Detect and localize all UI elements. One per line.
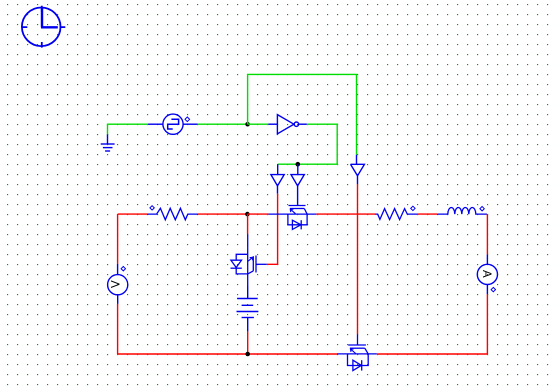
MOSFET Q2: [231, 234, 267, 286]
V1 polarity marker: [121, 267, 125, 271]
resistor R2: [375, 209, 417, 220]
inverter U1: [268, 115, 307, 134]
gating block T2: [291, 164, 304, 205]
simulation control clock icon: [22, 6, 66, 48]
wire battery to bottom rail: [247, 331, 249, 354]
L1 polarity marker: [480, 207, 484, 211]
voltmeter V1: [108, 264, 128, 304]
wire Q3 to right rail: [377, 353, 488, 355]
wire R2 to L1: [417, 213, 437, 215]
square-wave voltage source VSQ1: [148, 114, 198, 134]
svg-text:V: V: [110, 280, 122, 288]
wire T3 to Q3 gate: [357, 184, 359, 334]
inductor L1: [437, 208, 487, 215]
wire R1 to node C: [198, 213, 247, 215]
gating block T1: [271, 164, 284, 194]
wire node A to inverter input: [248, 123, 269, 125]
right rail red wire: [486, 214, 488, 255]
left rail lower red wire: [117, 304, 119, 354]
wire T1 to Q2 gate: [267, 194, 278, 265]
node A: [245, 122, 250, 127]
bottom rail red wire: [118, 353, 337, 355]
gating block T3: [351, 155, 365, 184]
MOSFET Q3: [337, 334, 377, 370]
R1 polarity marker: [150, 206, 154, 210]
left rail red wire: [117, 214, 119, 264]
top rail red wire left: [118, 213, 147, 215]
source polarity marker: [185, 117, 190, 122]
wire node A up and over to gating block T3: [248, 74, 357, 154]
battery VB1: [237, 286, 259, 331]
R2 polarity marker: [411, 206, 415, 210]
node B: [296, 162, 301, 167]
wire ground to source: [108, 124, 149, 134]
resistor R1: [147, 208, 198, 220]
svg-text:A: A: [480, 270, 492, 278]
ammeter A1: [477, 255, 497, 295]
node C: [245, 212, 250, 217]
A1 polarity marker: [491, 287, 495, 291]
node D: [245, 352, 250, 357]
MOSFET Q1: [268, 206, 316, 230]
right rail lower red wire: [486, 294, 488, 354]
wire node C down to Q2 drain: [247, 214, 249, 234]
ground: [101, 134, 115, 151]
wire source to node A: [198, 123, 248, 125]
wire inverter output to gating nodes: [278, 124, 338, 164]
wire Q1 to R2: [316, 213, 375, 215]
wire node C to Q1: [247, 213, 268, 215]
